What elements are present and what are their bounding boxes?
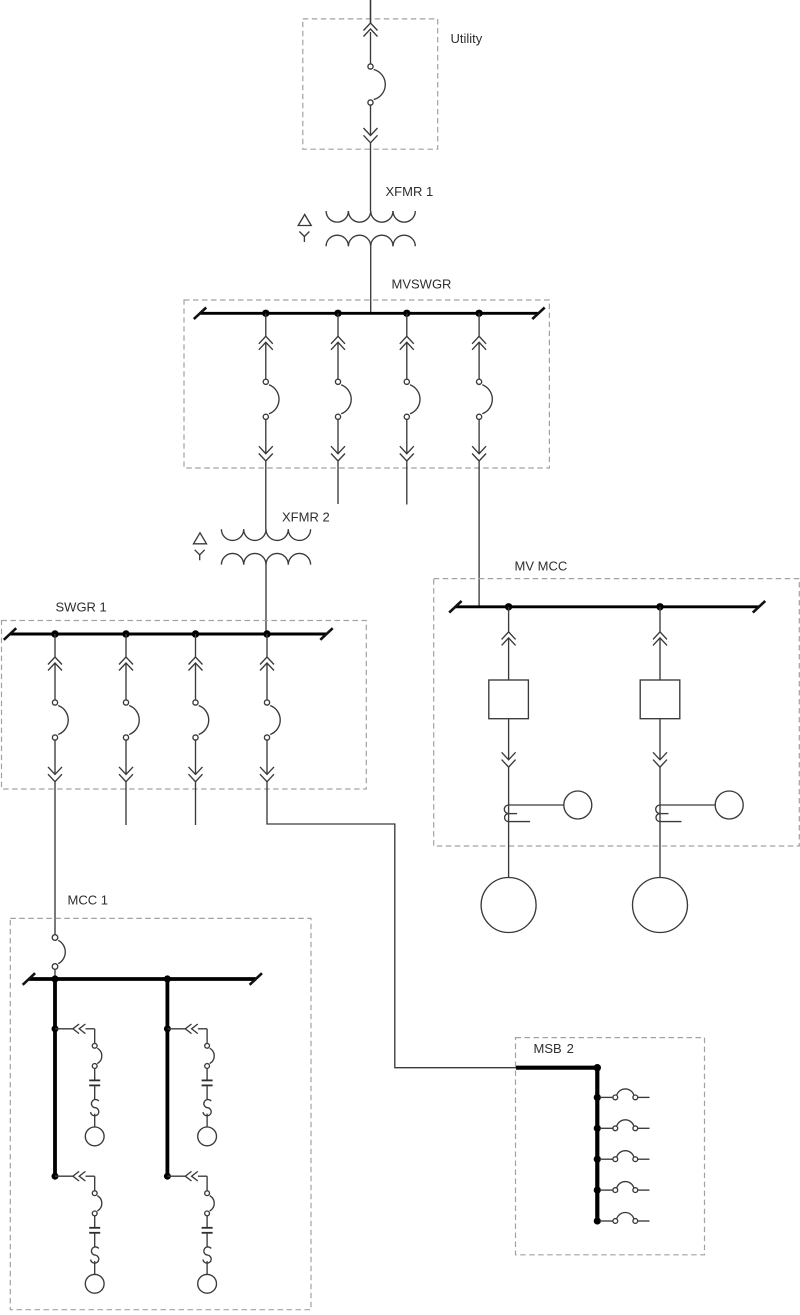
vertical feeder riser 1 (MCC 1) bbox=[53, 979, 57, 1176]
junction node (SWGR 1 feeder 1) bbox=[51, 630, 58, 637]
feeder breaker (MSB 2 branch 3) bbox=[613, 1151, 638, 1162]
motor M1 (MV MCC) bbox=[481, 878, 536, 933]
breaker CB3 (SWGR 1 feeder 3) bbox=[189, 634, 209, 782]
wire (XFMR 1 to MVSWGR bus) bbox=[370, 246, 372, 313]
overload relay (MCC 1 starter 2A) bbox=[203, 1100, 211, 1116]
svg-text:MCC 1: MCC 1 bbox=[68, 893, 108, 908]
bus MVSWGR left end slash bbox=[194, 308, 206, 320]
wire (MCC 1 starter 2B breaker to contactor) bbox=[206, 1216, 208, 1228]
bus MCC 1 left end slash bbox=[23, 973, 35, 985]
label SWGR 1 bbox=[56, 600, 107, 615]
label MSB 2 bbox=[534, 1041, 574, 1056]
wye symbol (XFMR 2 secondary) bbox=[195, 550, 205, 561]
motor M2 (MV MCC) bbox=[633, 878, 688, 933]
label MVSWGR bbox=[392, 277, 452, 292]
wire with drawout stabs (MV MCC feeder 1) bbox=[502, 607, 516, 680]
junction node (MVSWGR feeder 4) bbox=[475, 310, 482, 317]
bus MV MCC left end slash bbox=[449, 601, 461, 613]
wire (MSB 2 branch 5 breaker out) bbox=[638, 1220, 650, 1222]
label Utility bbox=[451, 31, 483, 46]
bus SWGR 1 bbox=[10, 633, 327, 636]
junction node (MCC 1 starter 2B) bbox=[164, 1173, 171, 1180]
delta symbol (XFMR 1 primary) bbox=[298, 215, 311, 226]
wire (MCC 1 starter 1A contactor to overload) bbox=[94, 1085, 96, 1099]
wire stub (MVSWGR feeder 3) bbox=[406, 461, 408, 505]
breaker CB2 (MVSWGR feeder 2) bbox=[331, 313, 351, 461]
wire (SWGR 1 feeder 1 to MCC 1) bbox=[54, 782, 56, 935]
wire tap with drawout stabs (MCC 1 starter 2A) bbox=[167, 1024, 207, 1043]
wire (MCC 1 starter 2A breaker to contactor) bbox=[206, 1068, 208, 1080]
wire (MSB 2 branch 4 bus to breaker) bbox=[600, 1189, 613, 1191]
breaker CB3 (MVSWGR feeder 3) bbox=[400, 313, 420, 461]
junction node (MCC 1 riser 1) bbox=[51, 975, 58, 982]
wire stub (SWGR 1 feeder 2) bbox=[125, 782, 127, 825]
SWGR 1 enclosure (dashed) bbox=[2, 621, 367, 790]
junction node (MSB 2 corner) bbox=[594, 1064, 601, 1071]
wire (XFMR 2 to SWGR 1 bus) bbox=[265, 565, 267, 634]
wire (MCC 1 starter 1B contactor to overload) bbox=[94, 1233, 96, 1247]
bus MV MCC bbox=[455, 605, 759, 608]
wire stub (SWGR 1 feeder 3) bbox=[195, 782, 197, 825]
wire (MCC 1 starter 1B overload to motor) bbox=[94, 1261, 96, 1274]
wire (SWGR 1 feeder 4 to MSB 2) bbox=[267, 782, 516, 1068]
transformer XFMR 2 primary winding bbox=[221, 529, 310, 540]
wire (MCC 1 starter 2A contactor to overload) bbox=[206, 1085, 208, 1099]
current transformer (MV MCC feeder 1) bbox=[504, 805, 563, 822]
svg-text:MSB2: MSB2 bbox=[534, 1041, 574, 1056]
junction node (MVSWGR feeder 2) bbox=[334, 310, 341, 317]
MCC 1 enclosure (dashed) bbox=[10, 918, 311, 1309]
wire (MCC 1 starter 2B overload to motor) bbox=[206, 1261, 208, 1274]
feeder breaker (MSB 2 branch 5) bbox=[613, 1213, 638, 1224]
breaker CB1 (SWGR 1 feeder 1) bbox=[48, 634, 68, 782]
wire tap with drawout stabs (MCC 1 starter 1A) bbox=[55, 1024, 95, 1043]
svg-text:MV MCC: MV MCC bbox=[515, 559, 568, 574]
current transformer (MV MCC feeder 2) bbox=[656, 805, 716, 822]
wire (MCC 1 starter 1A overload to motor) bbox=[94, 1114, 96, 1127]
transformer XFMR 1 secondary winding bbox=[326, 235, 415, 246]
svg-text:XFMR 1: XFMR 1 bbox=[386, 184, 434, 199]
junction node (MSB 2 branch 4) bbox=[594, 1187, 601, 1194]
circuit breaker (MCC 1 starter 1B) bbox=[92, 1191, 102, 1216]
overload relay (MCC 1 starter 1A) bbox=[91, 1100, 99, 1116]
junction node (SWGR 1 feeder 3) bbox=[192, 630, 199, 637]
breaker CB4 (SWGR 1 feeder 4) bbox=[260, 634, 280, 782]
feeder breaker (MSB 2 branch 2) bbox=[613, 1120, 638, 1131]
contactor contact (MCC 1 starter 1B) bbox=[89, 1228, 100, 1233]
circuit breaker (MCC 1 starter 2A) bbox=[205, 1043, 215, 1068]
wire stub (MVSWGR feeder 2) bbox=[337, 461, 339, 504]
bus MCC 1 right end slash bbox=[250, 973, 262, 985]
fuse/contactor block (MV MCC feeder 2) bbox=[640, 680, 680, 719]
feeder breaker (MSB 2 branch 4) bbox=[613, 1182, 638, 1193]
bus SWGR 1 left end slash bbox=[4, 628, 16, 640]
bus MV MCC right end slash bbox=[753, 601, 765, 613]
feeder breaker (MSB 2 branch 1) bbox=[613, 1089, 638, 1100]
bus MVSWGR right end slash bbox=[532, 308, 544, 320]
junction node (MSB 2 branch 1) bbox=[594, 1094, 601, 1101]
contactor contact (MCC 1 starter 2A) bbox=[202, 1080, 213, 1085]
junction node (SWGR 1 feeder 2) bbox=[122, 630, 129, 637]
wire with drawout stabs (MV MCC feeder 2 below block) bbox=[653, 719, 667, 878]
main disconnect (MCC 1 incoming) bbox=[52, 935, 65, 977]
junction node (MCC 1 riser 2) bbox=[164, 975, 171, 982]
junction node (MVSWGR feeder 3) bbox=[403, 310, 410, 317]
wire (MSB 2 branch 3 bus to breaker) bbox=[600, 1158, 613, 1160]
junction node (SWGR 1 feeder 4) bbox=[263, 630, 270, 637]
transformer XFMR 1 primary winding bbox=[326, 211, 415, 222]
wire (MSB 2 branch 3 breaker out) bbox=[638, 1158, 650, 1160]
wire tap with drawout stabs (MCC 1 starter 1B) bbox=[55, 1171, 95, 1190]
junction node (MSB 2 branch 3) bbox=[594, 1156, 601, 1163]
vertical feeder riser 2 (MCC 1) bbox=[165, 979, 169, 1176]
utility breaker CB-U bbox=[364, 0, 386, 143]
bus MVSWGR bbox=[200, 312, 539, 315]
delta symbol (XFMR 2 primary) bbox=[194, 533, 207, 544]
wire (MSB 2 branch 5 bus to breaker) bbox=[600, 1220, 613, 1222]
junction node (MV MCC feeder 2) bbox=[656, 603, 663, 610]
bus MSB 2 (horizontal) bbox=[516, 1066, 597, 1070]
breaker CB4 (MVSWGR feeder 4) bbox=[472, 313, 492, 461]
junction node (MVSWGR feeder 1) bbox=[262, 310, 269, 317]
label XFMR 2 bbox=[282, 510, 330, 525]
meter/relay (MV MCC feeder 2) bbox=[715, 791, 743, 819]
label XFMR 1 bbox=[386, 184, 434, 199]
breaker CB1 (MVSWGR feeder 1) bbox=[259, 313, 279, 461]
wire tap with drawout stabs (MCC 1 starter 2B) bbox=[167, 1171, 207, 1190]
wire (incoming utility feed) bbox=[370, 0, 372, 23]
wire (MCC 1 starter 1B breaker to contactor) bbox=[94, 1216, 96, 1228]
wire (MCC 1 starter 2A overload to motor) bbox=[206, 1114, 208, 1127]
motor (MCC 1 starter 1B) bbox=[85, 1274, 104, 1293]
breaker CB2 (SWGR 1 feeder 2) bbox=[119, 634, 139, 782]
junction node (MCC 1 starter 1A) bbox=[52, 1025, 59, 1032]
fuse/contactor block (MV MCC feeder 1) bbox=[489, 680, 529, 719]
junction node (MV MCC feeder 1) bbox=[505, 603, 512, 610]
circuit breaker (MCC 1 starter 1A) bbox=[92, 1043, 102, 1068]
wye symbol (XFMR 1 secondary) bbox=[299, 232, 309, 243]
wire (MSB 2 branch 1 bus to breaker) bbox=[600, 1096, 613, 1098]
svg-text:SWGR 1: SWGR 1 bbox=[56, 600, 107, 615]
svg-text:XFMR 2: XFMR 2 bbox=[282, 510, 330, 525]
contactor contact (MCC 1 starter 1A) bbox=[89, 1080, 100, 1085]
overload relay (MCC 1 starter 2B) bbox=[203, 1247, 211, 1263]
overload relay (MCC 1 starter 1B) bbox=[91, 1247, 99, 1263]
wire (MCC 1 starter 2B contactor to overload) bbox=[206, 1233, 208, 1247]
junction node (MCC 1 starter 2A) bbox=[164, 1025, 171, 1032]
Utility enclosure (dashed) bbox=[303, 19, 438, 149]
wire with drawout stabs (MV MCC feeder 1 below block) bbox=[502, 719, 516, 878]
circuit breaker (MCC 1 starter 2B) bbox=[205, 1191, 215, 1216]
transformer XFMR 2 secondary winding bbox=[221, 553, 310, 564]
wire (MSB 2 branch 4 breaker out) bbox=[638, 1189, 650, 1191]
wire (MVSWGR feeder 4 to MV MCC bus) bbox=[478, 461, 480, 607]
wire (utility breaker to XFMR 1) bbox=[370, 142, 372, 211]
junction node (MCC 1 starter 1B) bbox=[52, 1173, 59, 1180]
MVSWGR enclosure (dashed) bbox=[184, 300, 549, 468]
motor (MCC 1 starter 2A) bbox=[198, 1127, 217, 1146]
wire (MSB 2 branch 1 breaker out) bbox=[638, 1096, 650, 1098]
wire (MVSWGR feeder 1 to XFMR 2) bbox=[265, 461, 267, 529]
motor (MCC 1 starter 1A) bbox=[85, 1127, 104, 1146]
bus MCC 1 bbox=[29, 977, 256, 981]
label MCC 1 bbox=[68, 893, 108, 908]
label MV MCC bbox=[515, 559, 568, 574]
junction node (MSB 2 branch 2) bbox=[594, 1125, 601, 1132]
bus SWGR 1 right end slash bbox=[320, 628, 332, 640]
wire (MSB 2 branch 2 breaker out) bbox=[638, 1127, 650, 1129]
bus MSB 2 (vertical) bbox=[595, 1068, 599, 1221]
wire with drawout stabs (MV MCC feeder 2) bbox=[653, 607, 667, 680]
junction node (MSB 2 branch 5) bbox=[594, 1217, 601, 1224]
meter/relay (MV MCC feeder 1) bbox=[564, 791, 592, 819]
wire (MCC 1 starter 1A breaker to contactor) bbox=[94, 1068, 96, 1080]
svg-text:Utility: Utility bbox=[451, 31, 483, 46]
contactor contact (MCC 1 starter 2B) bbox=[202, 1228, 213, 1233]
MV MCC enclosure (dashed) bbox=[434, 579, 800, 846]
motor (MCC 1 starter 2B) bbox=[198, 1274, 217, 1293]
wire (MSB 2 branch 2 bus to breaker) bbox=[600, 1127, 613, 1129]
MSB 2 enclosure (dashed) bbox=[516, 1038, 705, 1255]
svg-text:MVSWGR: MVSWGR bbox=[392, 277, 452, 292]
